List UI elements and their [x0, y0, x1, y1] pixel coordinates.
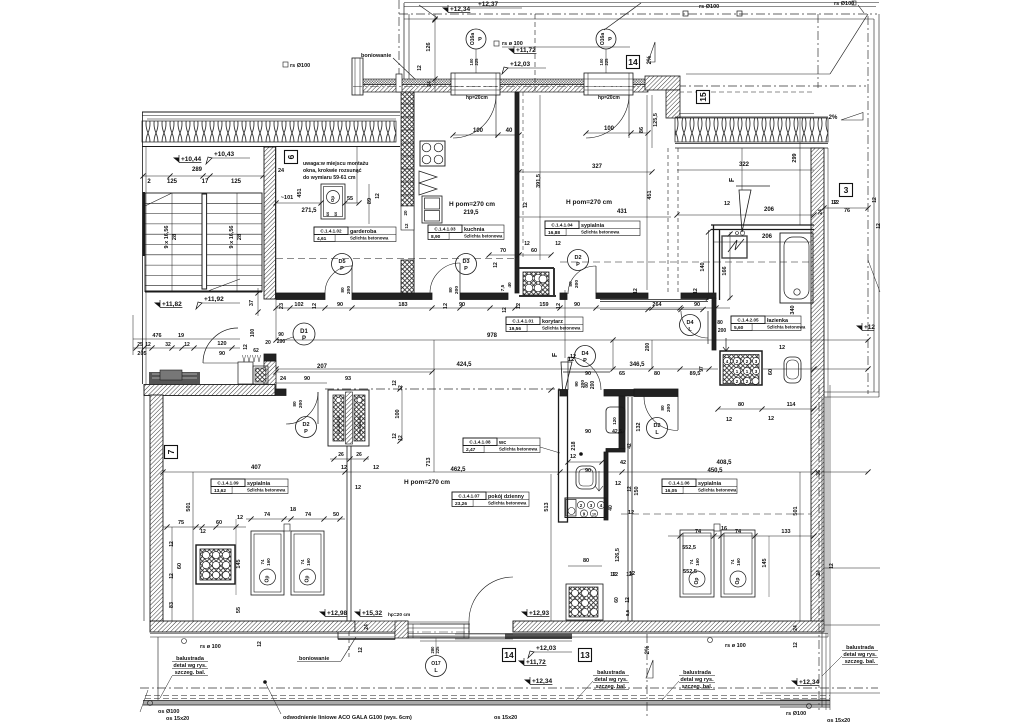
svg-text:145: 145	[236, 559, 242, 568]
svg-text:2,47: 2,47	[466, 447, 476, 453]
svg-text:289: 289	[192, 167, 203, 173]
svg-text:D2: D2	[574, 255, 581, 261]
svg-text:P: P	[478, 37, 482, 43]
svg-text:D5: D5	[338, 259, 345, 265]
svg-text:37: 37	[249, 300, 255, 306]
svg-text:24: 24	[793, 625, 799, 631]
svg-text:12: 12	[793, 642, 799, 648]
svg-text:50: 50	[333, 512, 339, 518]
svg-text:299: 299	[792, 153, 798, 162]
svg-text:16,05: 16,05	[665, 488, 677, 494]
svg-text:26: 26	[338, 452, 344, 458]
svg-text:60: 60	[216, 520, 222, 526]
svg-text:+11,72: +11,72	[526, 659, 546, 666]
svg-text:C.1.4.2.05: C.1.4.2.05	[737, 318, 759, 323]
svg-text:12: 12	[726, 417, 732, 423]
svg-text:322: 322	[739, 162, 750, 168]
svg-text:102: 102	[294, 302, 303, 308]
svg-text:detal wg rys.: detal wg rys.	[680, 677, 714, 683]
svg-text:7,5: 7,5	[500, 284, 506, 291]
svg-text:12: 12	[610, 572, 616, 578]
svg-text:90: 90	[459, 302, 465, 308]
svg-text:korytarz: korytarz	[542, 319, 563, 325]
svg-text:225: 225	[604, 58, 609, 66]
svg-text:206: 206	[764, 207, 775, 213]
svg-text:+12,98: +12,98	[327, 610, 347, 617]
svg-text:18: 18	[290, 507, 296, 513]
svg-text:451: 451	[297, 188, 303, 197]
svg-text:80: 80	[717, 320, 723, 326]
svg-text:+10,43: +10,43	[214, 151, 234, 158]
svg-text:14: 14	[504, 650, 514, 660]
svg-text:74: 74	[264, 512, 271, 518]
svg-text:160: 160	[736, 558, 741, 566]
svg-text:160: 160	[695, 558, 700, 566]
svg-text:2%: 2%	[829, 115, 838, 121]
svg-text:12: 12	[493, 262, 499, 268]
svg-text:70: 70	[500, 248, 506, 254]
svg-text:szczeg. bal.: szczeg. bal.	[682, 684, 713, 690]
svg-text:8,5: 8,5	[625, 609, 630, 616]
svg-text:O16a: O16a	[470, 33, 476, 45]
svg-text:Szlichta betonowa: Szlichta betonowa	[350, 236, 389, 241]
svg-text:9 x 16,56: 9 x 16,56	[164, 226, 170, 249]
svg-text:12: 12	[615, 481, 621, 487]
svg-text:D3: D3	[462, 259, 469, 265]
svg-text:szczeg. bal.: szczeg. bal.	[845, 659, 876, 665]
svg-text:Szlichta betonowa: Szlichta betonowa	[767, 325, 806, 330]
svg-text:62: 62	[253, 348, 259, 354]
svg-text:12: 12	[633, 288, 639, 294]
svg-text:12: 12	[184, 342, 190, 348]
svg-text:12: 12	[627, 486, 633, 492]
svg-text:90: 90	[585, 468, 591, 474]
svg-text:74: 74	[689, 559, 694, 565]
svg-text:P: P	[583, 358, 587, 364]
svg-text:100: 100	[604, 126, 615, 132]
svg-text:74: 74	[260, 559, 265, 565]
svg-text:balustrada: balustrada	[597, 670, 626, 676]
svg-text:200: 200	[645, 343, 651, 352]
svg-text:271,5: 271,5	[301, 208, 317, 214]
svg-text:80: 80	[654, 371, 660, 377]
svg-text:D1: D1	[300, 329, 308, 335]
svg-text:42: 42	[620, 460, 626, 466]
svg-text:O17: O17	[431, 661, 441, 667]
svg-text:60: 60	[325, 211, 330, 216]
svg-text:90: 90	[337, 302, 343, 308]
svg-text:D2: D2	[302, 422, 309, 428]
svg-text:40: 40	[608, 505, 614, 511]
svg-text:P: P	[302, 336, 306, 342]
svg-text:20: 20	[265, 340, 271, 346]
svg-text:206: 206	[762, 234, 773, 240]
svg-text:12: 12	[779, 345, 785, 351]
svg-text:12: 12	[358, 647, 364, 653]
svg-text:20: 20	[403, 210, 408, 216]
svg-text:327: 327	[592, 164, 603, 170]
svg-text:C.1.4.1.02: C.1.4.1.02	[320, 229, 342, 234]
svg-text:24: 24	[816, 570, 822, 576]
svg-text:133: 133	[781, 529, 790, 535]
svg-text:23,26: 23,26	[455, 501, 467, 507]
svg-text:183: 183	[398, 302, 407, 308]
svg-text:80: 80	[340, 287, 346, 293]
svg-text:80: 80	[660, 405, 666, 411]
svg-text:os 15x20: os 15x20	[827, 718, 850, 724]
svg-text:C.1.4.1.09: C.1.4.1.09	[217, 481, 239, 486]
svg-text:+12: +12	[864, 324, 875, 331]
svg-text:12: 12	[768, 416, 774, 422]
svg-text:40: 40	[506, 128, 513, 134]
svg-text:pokój dzienny: pokój dzienny	[488, 494, 524, 500]
svg-text:Szlichta betonowa: Szlichta betonowa	[581, 230, 620, 235]
svg-text:200: 200	[718, 328, 727, 334]
svg-text:150: 150	[634, 486, 640, 495]
svg-text:12: 12	[555, 241, 561, 247]
svg-text:513: 513	[544, 502, 550, 511]
svg-text:12: 12	[872, 197, 878, 203]
svg-text:D4: D4	[686, 320, 694, 326]
svg-text:424,5: 424,5	[456, 362, 472, 368]
svg-text:12: 12	[392, 433, 398, 439]
svg-text:8,90: 8,90	[431, 234, 441, 240]
svg-text:12: 12	[200, 529, 206, 535]
svg-text:501: 501	[186, 502, 192, 511]
svg-text:12: 12	[237, 515, 243, 521]
svg-text:boniowanie: boniowanie	[299, 656, 329, 662]
svg-text:60: 60	[768, 369, 774, 375]
svg-text:os 15x20: os 15x20	[166, 716, 189, 722]
svg-text:125: 125	[231, 179, 242, 185]
svg-text:uwaga:w miejscu montażu: uwaga:w miejscu montażu	[303, 161, 368, 167]
svg-text:Szlichta betonowa: Szlichta betonowa	[464, 234, 503, 239]
svg-text:rs Ø100: rs Ø100	[834, 1, 854, 7]
svg-text:+12,34: +12,34	[799, 679, 819, 686]
svg-text:340: 340	[790, 305, 796, 314]
svg-text:25: 25	[137, 342, 143, 348]
svg-text:100: 100	[395, 409, 401, 418]
svg-text:90: 90	[219, 351, 225, 357]
svg-text:O16a: O16a	[600, 33, 606, 45]
svg-text:łazienka: łazienka	[767, 318, 789, 324]
svg-text:P: P	[464, 266, 468, 272]
svg-text:16: 16	[721, 526, 727, 532]
svg-text:12: 12	[628, 510, 634, 516]
svg-text:160: 160	[266, 558, 271, 566]
svg-text:200: 200	[298, 400, 304, 408]
svg-text:125: 125	[167, 179, 178, 185]
svg-text:10: 10	[592, 513, 596, 517]
svg-text:2%: 2%	[645, 645, 651, 654]
svg-text:garderoba: garderoba	[350, 229, 377, 235]
svg-text:detal wg rys.: detal wg rys.	[843, 652, 877, 658]
svg-text:80: 80	[448, 287, 454, 293]
svg-text:Sz 2N2 60: Sz 2N2 60	[358, 416, 362, 434]
svg-text:+11,82: +11,82	[162, 301, 182, 308]
svg-text:140: 140	[700, 262, 706, 271]
svg-text:H pom=270 cm: H pom=270 cm	[566, 199, 612, 206]
svg-text:4,61: 4,61	[317, 236, 327, 242]
svg-text:Op: Op	[305, 576, 311, 583]
svg-text:145: 145	[762, 558, 768, 567]
svg-text:450,5: 450,5	[707, 468, 723, 474]
svg-text:90: 90	[574, 381, 580, 387]
svg-text:Op: Op	[735, 578, 741, 585]
svg-text:do wymiaru 59-61 cm: do wymiaru 59-61 cm	[303, 175, 356, 181]
svg-text:9 x 16,56: 9 x 16,56	[229, 226, 235, 249]
svg-text:boniowanie: boniowanie	[361, 53, 391, 59]
svg-text:odwodnienie liniowe ACO GALA G: odwodnienie liniowe ACO GALA G100 (wys. …	[283, 715, 412, 721]
svg-text:24: 24	[364, 624, 370, 630]
svg-text:76: 76	[844, 208, 850, 214]
svg-text:16,88: 16,88	[548, 230, 560, 236]
svg-text:szczeg. bal.: szczeg. bal.	[175, 670, 206, 676]
svg-text:szczeg. bal.: szczeg. bal.	[596, 684, 627, 690]
svg-text:60: 60	[333, 211, 338, 216]
svg-text:Sz 2N2 60: Sz 2N2 60	[337, 416, 341, 434]
svg-text:89: 89	[367, 198, 373, 204]
svg-text:713: 713	[426, 457, 432, 466]
svg-text:wc: wc	[498, 440, 506, 446]
svg-text:60: 60	[177, 563, 183, 569]
svg-text:200: 200	[277, 339, 286, 345]
svg-text:451: 451	[647, 190, 653, 199]
svg-text:balustrada: balustrada	[176, 656, 205, 662]
svg-text:219,5: 219,5	[463, 210, 479, 216]
svg-text:hp=20cm: hp=20cm	[466, 95, 488, 101]
svg-text:12: 12	[570, 454, 576, 460]
svg-text:~101: ~101	[281, 195, 293, 201]
svg-text:balustrada: balustrada	[683, 670, 712, 676]
svg-text:F: F	[552, 352, 559, 357]
svg-text:C.1.4.1.03: C.1.4.1.03	[434, 227, 456, 232]
svg-text:Szlichta betonowa: Szlichta betonowa	[247, 488, 286, 493]
svg-text:12: 12	[341, 465, 347, 471]
svg-text:12: 12	[556, 303, 562, 309]
svg-text:C.1.4.1.07: C.1.4.1.07	[458, 494, 480, 499]
svg-text:24: 24	[280, 376, 287, 382]
svg-text:24: 24	[818, 209, 824, 215]
svg-text:26: 26	[356, 452, 362, 458]
svg-text:74: 74	[730, 559, 735, 565]
svg-text:12: 12	[443, 303, 449, 309]
svg-text:12: 12	[833, 200, 839, 206]
svg-text:D4: D4	[581, 351, 589, 357]
svg-text:detal wg rys.: detal wg rys.	[594, 677, 628, 683]
svg-text:74: 74	[300, 559, 305, 565]
svg-text:P: P	[608, 37, 612, 43]
svg-text:200: 200	[580, 380, 586, 388]
svg-text:Op: Op	[330, 196, 335, 203]
svg-text:200: 200	[346, 286, 352, 294]
svg-text:218: 218	[571, 441, 577, 450]
svg-text:+10,44: +10,44	[181, 156, 201, 163]
svg-text:rs Ø100: rs Ø100	[786, 711, 806, 717]
svg-text:Op: Op	[694, 578, 700, 585]
svg-text:17: 17	[202, 179, 209, 185]
svg-text:12: 12	[145, 342, 151, 348]
svg-text:12: 12	[355, 485, 361, 491]
svg-text:32: 32	[165, 342, 171, 348]
svg-text:C.1.4.1.04: C.1.4.1.04	[551, 223, 573, 228]
svg-text:200: 200	[574, 280, 580, 288]
svg-text:159: 159	[539, 302, 548, 308]
svg-text:12: 12	[312, 303, 318, 309]
svg-text:12: 12	[243, 344, 249, 350]
svg-text:H pom=270 cm: H pom=270 cm	[404, 479, 450, 486]
svg-text:90: 90	[585, 429, 591, 435]
svg-text:F: F	[729, 177, 736, 182]
svg-text:C.1.4.1.08: C.1.4.1.08	[469, 440, 491, 445]
svg-text:+12,34: +12,34	[532, 678, 552, 685]
svg-text:detal wg rys.: detal wg rys.	[173, 663, 207, 669]
svg-text:55: 55	[236, 607, 242, 613]
svg-text:60: 60	[531, 248, 537, 254]
svg-text:160: 160	[306, 558, 311, 566]
svg-text:90: 90	[694, 302, 700, 308]
svg-text:80: 80	[738, 402, 744, 408]
svg-text:55: 55	[347, 196, 353, 202]
svg-text:rs ø 100: rs ø 100	[200, 644, 221, 650]
svg-text:391,5: 391,5	[536, 174, 542, 188]
svg-text:126,5: 126,5	[615, 548, 621, 562]
svg-text:100: 100	[473, 128, 484, 134]
svg-text:12: 12	[626, 572, 632, 578]
svg-text:12: 12	[724, 201, 730, 207]
svg-text:hp=20cm: hp=20cm	[598, 95, 620, 101]
svg-text:19,56: 19,56	[509, 326, 521, 332]
svg-text:126: 126	[426, 42, 432, 51]
svg-text:14: 14	[628, 57, 638, 67]
svg-text:balustrada: balustrada	[846, 645, 875, 651]
svg-text:100: 100	[250, 329, 256, 338]
svg-text:205: 205	[137, 351, 146, 357]
svg-text:+12,37: +12,37	[478, 1, 498, 8]
svg-text:264: 264	[652, 302, 662, 308]
svg-text:C.1.4.1.06: C.1.4.1.06	[668, 481, 690, 486]
svg-text:+12,93: +12,93	[529, 610, 549, 617]
svg-text:D2: D2	[653, 423, 660, 429]
svg-text:80: 80	[568, 281, 574, 287]
svg-text:sypialnia: sypialnia	[247, 481, 271, 487]
svg-text:120: 120	[217, 341, 226, 347]
svg-text:+15,32: +15,32	[362, 610, 382, 617]
svg-text:Szlichta betonowa: Szlichta betonowa	[542, 326, 581, 331]
svg-text:sypialnia: sypialnia	[581, 223, 605, 229]
svg-text:+11,92: +11,92	[204, 296, 224, 303]
svg-text:hp=20 cm: hp=20 cm	[388, 612, 410, 618]
svg-text:60: 60	[614, 597, 620, 603]
svg-text:12: 12	[375, 193, 381, 199]
svg-text:114: 114	[787, 402, 797, 408]
svg-text:H pom=270 cm: H pom=270 cm	[449, 201, 495, 208]
svg-text:13,62: 13,62	[214, 488, 226, 494]
svg-text:132: 132	[636, 422, 642, 431]
svg-text:80: 80	[583, 558, 589, 564]
svg-text:12: 12	[257, 641, 263, 647]
svg-text:12: 12	[693, 288, 699, 294]
svg-text:42,5: 42,5	[612, 429, 622, 435]
svg-text:12: 12	[417, 65, 423, 71]
svg-text:sypialnia: sypialnia	[698, 481, 722, 487]
svg-text:19: 19	[178, 333, 184, 339]
svg-text:Szlichta betonowa: Szlichta betonowa	[488, 501, 527, 506]
svg-text:407: 407	[251, 465, 262, 471]
svg-text:431: 431	[617, 209, 628, 215]
svg-text:Op: Op	[265, 576, 271, 583]
svg-text:os 15x20: os 15x20	[494, 715, 517, 721]
svg-text:552,5: 552,5	[682, 545, 696, 551]
svg-text:97: 97	[699, 366, 705, 372]
svg-text:os Ø100: os Ø100	[158, 709, 179, 715]
svg-text:90: 90	[304, 376, 310, 382]
svg-text:74: 74	[305, 512, 312, 518]
svg-text:+12,03: +12,03	[536, 645, 556, 652]
svg-text:225: 225	[474, 58, 479, 66]
svg-text:200: 200	[590, 381, 596, 390]
svg-text:90: 90	[278, 332, 284, 338]
svg-text:12: 12	[876, 223, 882, 229]
svg-text:12: 12	[625, 597, 631, 603]
svg-text:Szlichta betonowa: Szlichta betonowa	[499, 447, 538, 452]
svg-text:74: 74	[735, 529, 742, 535]
svg-text:12: 12	[392, 380, 398, 386]
svg-text:12: 12	[524, 241, 530, 247]
svg-text:166: 166	[722, 266, 728, 275]
svg-text:40: 40	[507, 282, 513, 288]
svg-text:408,5: 408,5	[716, 460, 732, 466]
svg-text:15: 15	[698, 92, 708, 102]
svg-text:12: 12	[404, 223, 409, 229]
svg-text:P: P	[576, 262, 580, 268]
svg-text:90: 90	[574, 302, 580, 308]
svg-text:28: 28	[172, 234, 178, 240]
svg-text:12: 12	[373, 465, 379, 471]
svg-text:125,5: 125,5	[653, 113, 659, 127]
svg-text:Szlichta betonowa: Szlichta betonowa	[698, 488, 737, 493]
svg-text:+12,34: +12,34	[450, 6, 470, 13]
svg-text:P: P	[340, 266, 344, 272]
svg-text:23: 23	[279, 303, 285, 309]
svg-text:978: 978	[487, 333, 498, 339]
svg-text:7: 7	[166, 449, 176, 454]
svg-text:65: 65	[619, 371, 625, 377]
svg-text:24: 24	[427, 81, 433, 87]
svg-text:74: 74	[695, 529, 702, 535]
svg-text:rs ø 100: rs ø 100	[725, 643, 746, 649]
svg-text:okna, krokwie rozsunąć: okna, krokwie rozsunąć	[303, 168, 362, 174]
svg-text:346,5: 346,5	[629, 362, 645, 368]
svg-text:476: 476	[152, 333, 161, 339]
svg-text:+12,03: +12,03	[510, 61, 530, 68]
svg-text:552,5: 552,5	[683, 569, 697, 575]
svg-text:207: 207	[317, 364, 328, 370]
svg-text:rs Ø100: rs Ø100	[699, 4, 719, 10]
svg-text:13: 13	[580, 650, 590, 660]
svg-text:5,60: 5,60	[734, 325, 744, 331]
svg-text:kuchnia: kuchnia	[464, 227, 485, 233]
svg-text:80: 80	[292, 401, 298, 407]
svg-text:24: 24	[278, 168, 285, 174]
svg-text:28: 28	[237, 234, 243, 240]
svg-text:86: 86	[639, 127, 645, 133]
svg-text:12: 12	[523, 202, 529, 208]
svg-text:6: 6	[286, 154, 296, 159]
svg-text:75: 75	[178, 520, 184, 526]
svg-text:12: 12	[568, 357, 574, 363]
svg-text:C.1.4.1.01: C.1.4.1.01	[512, 319, 534, 324]
